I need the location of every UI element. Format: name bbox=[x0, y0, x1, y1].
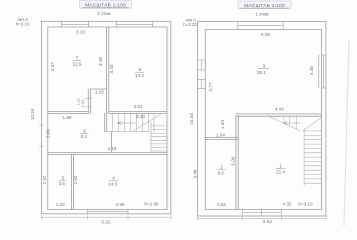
closet left wall bbox=[88, 89, 90, 114]
svg-text:2: 2 bbox=[220, 165, 223, 170]
svg-text:4.19: 4.19 bbox=[108, 146, 117, 151]
wall room7/room6 bbox=[48, 112, 89, 114]
svg-text:10.34: 10.34 bbox=[189, 113, 194, 125]
wall room6/stair lower bbox=[111, 132, 113, 153]
svg-text:1: 1 bbox=[279, 164, 282, 169]
bottom porch lines left plan bbox=[88, 210, 129, 214]
svg-text:1.15: 1.15 bbox=[95, 90, 104, 95]
scan artifact right edge bbox=[344, 40, 349, 226]
wall room8/stair hall bbox=[109, 111, 167, 113]
svg-text:13.3: 13.3 bbox=[135, 73, 144, 78]
svg-text:4.32: 4.32 bbox=[283, 202, 292, 207]
svg-text:1.64: 1.64 bbox=[216, 133, 225, 138]
svg-text:28.1: 28.1 bbox=[257, 70, 266, 75]
svg-text:5: 5 bbox=[62, 175, 65, 180]
stair vertical flight right plan bbox=[304, 129, 321, 186]
stair direction arrow left plan bbox=[118, 122, 137, 125]
window left wall upper right plan bbox=[198, 60, 206, 70]
svg-text:h=3.20: h=3.20 bbox=[183, 22, 197, 27]
svg-text:6.62: 6.62 bbox=[102, 219, 111, 224]
svg-text:5.77: 5.77 bbox=[208, 82, 213, 91]
title block right plan bbox=[238, 1, 291, 16]
svg-text:1.89: 1.89 bbox=[63, 115, 72, 120]
window right wall right plan bbox=[319, 55, 326, 88]
outer wall rect left plan bbox=[42, 21, 171, 214]
wall room3/room2 bbox=[205, 137, 238, 139]
svg-text:2 этаж: 2 этаж bbox=[97, 11, 110, 16]
svg-text:14.3: 14.3 bbox=[108, 181, 117, 186]
svg-text:5.00: 5.00 bbox=[231, 156, 236, 165]
svg-text:6: 6 bbox=[83, 128, 86, 133]
window left wall lower right plan bbox=[198, 79, 206, 88]
svg-text:3.16: 3.16 bbox=[98, 57, 103, 66]
svg-text:3: 3 bbox=[263, 64, 266, 69]
stair diagonal left plan bbox=[133, 115, 161, 132]
window W1 top wall left plan bbox=[62, 21, 89, 27]
svg-text:2.92: 2.92 bbox=[42, 175, 47, 184]
svg-text:7: 7 bbox=[76, 55, 79, 60]
svg-text:1 этаж: 1 этаж bbox=[255, 11, 268, 16]
svg-text:h=2.80: h=2.80 bbox=[144, 201, 159, 206]
wall room3/room1 stair wall bbox=[236, 114, 322, 116]
dimension ticks left outer wall bbox=[39, 125, 43, 146]
title block left plan bbox=[80, 1, 132, 16]
stair top flight steps left plan bbox=[105, 113, 154, 131]
inner wall rect right plan bbox=[205, 29, 321, 209]
stair winder steps right plan bbox=[283, 116, 296, 129]
partition rooms 5/4 bbox=[72, 155, 74, 210]
svg-text:1.21: 1.21 bbox=[77, 98, 81, 105]
svg-text:6.08: 6.08 bbox=[261, 32, 270, 37]
stair second diagonal right plan bbox=[303, 118, 321, 132]
svg-text:8.1: 8.1 bbox=[81, 134, 88, 139]
svg-text:4.44: 4.44 bbox=[275, 106, 284, 111]
window top wall right plan bbox=[238, 22, 283, 30]
closet top wall bbox=[91, 88, 107, 90]
bottom porch right plan bbox=[242, 210, 281, 217]
bottom dimension line right plan bbox=[198, 217, 327, 220]
svg-text:3.10: 3.10 bbox=[76, 30, 85, 35]
svg-text:4.37: 4.37 bbox=[50, 62, 55, 71]
svg-text:1.20: 1.20 bbox=[56, 202, 65, 207]
svg-text:2.92: 2.92 bbox=[73, 175, 78, 184]
window W2 top wall left plan bbox=[116, 21, 153, 27]
svg-text:1.64: 1.64 bbox=[217, 202, 226, 207]
middle wall full width left plan bbox=[48, 153, 167, 155]
partition wall rooms 2/1 bbox=[236, 116, 238, 209]
dimension ticks closet bbox=[85, 99, 93, 107]
svg-text:4.43: 4.43 bbox=[109, 64, 114, 73]
svg-text:2.06: 2.06 bbox=[45, 129, 50, 138]
inner wall rect left plan bbox=[48, 27, 167, 210]
svg-text:6.62: 6.62 bbox=[263, 219, 272, 224]
stair hall left wall bbox=[105, 113, 107, 131]
svg-text:1.21: 1.21 bbox=[81, 100, 85, 107]
stair big diagonal right plan bbox=[269, 116, 301, 131]
outer wall rect right plan bbox=[198, 22, 326, 216]
svg-text:6.0: 6.0 bbox=[218, 170, 225, 175]
svg-text:3.01: 3.01 bbox=[134, 104, 143, 109]
svg-text:h=3.10: h=3.10 bbox=[298, 202, 313, 207]
svg-text:4.96: 4.96 bbox=[116, 202, 125, 207]
svg-text:1.34: 1.34 bbox=[220, 120, 225, 129]
svg-text:3.5: 3.5 bbox=[59, 181, 66, 186]
svg-text:3.23: 3.23 bbox=[136, 114, 145, 119]
svg-text:21.4: 21.4 bbox=[276, 169, 285, 174]
svg-text:h=3.10: h=3.10 bbox=[16, 22, 30, 27]
svg-text:3.48: 3.48 bbox=[192, 169, 197, 178]
partition wall rooms 7/8 bbox=[107, 27, 109, 114]
svg-text:12.9: 12.9 bbox=[73, 61, 82, 66]
svg-text:8: 8 bbox=[139, 67, 142, 72]
stair vertical flight left plan bbox=[151, 122, 167, 151]
stair direction arrow right plan bbox=[283, 122, 300, 125]
svg-text:10.34: 10.34 bbox=[30, 108, 35, 120]
svg-text:4: 4 bbox=[112, 176, 115, 181]
bottom dimension line left plan bbox=[42, 216, 172, 220]
svg-text:4.45: 4.45 bbox=[309, 66, 314, 75]
